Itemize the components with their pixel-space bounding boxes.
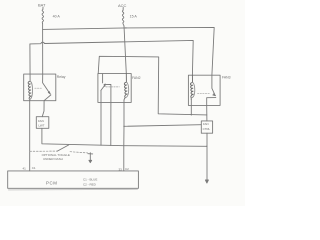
svg-text:41: 41 xyxy=(23,167,27,171)
svg-text:40 A: 40 A xyxy=(53,15,61,19)
relay K3 coil xyxy=(190,75,193,99)
svg-text:CTRL: CTRL xyxy=(203,127,211,131)
PCM box xyxy=(8,171,139,188)
wire fuse F1 down to relay K1 switch xyxy=(42,24,44,75)
svg-text:ACC: ACC xyxy=(118,3,127,8)
svg-text:C1: C1 xyxy=(32,166,36,170)
relay K2 label FAN2 xyxy=(132,76,141,80)
relay K3 switch xyxy=(212,75,215,94)
relay K3 box xyxy=(188,75,220,105)
fuse F2 label ACC xyxy=(118,3,127,8)
junction C-K3coil xyxy=(191,114,192,115)
relay K1 coil xyxy=(28,81,31,101)
fuse F2 (15A) xyxy=(122,7,124,26)
wire K3 coil to wire C xyxy=(190,100,192,115)
relay K2 armature dashed link xyxy=(106,86,119,88)
wire K2 pole down to wire D xyxy=(100,102,102,145)
toggle lever xyxy=(57,145,68,151)
ground GND1 xyxy=(88,153,93,155)
svg-text:C2 - RED: C2 - RED xyxy=(83,182,97,186)
box B2 FAN CTRL xyxy=(201,121,212,133)
wire K1 coil to PCM pin 41 xyxy=(29,101,31,171)
wire E : K2 coil to box B2 xyxy=(124,125,201,127)
dashed to ground xyxy=(70,152,88,153)
svg-text:FAN3: FAN3 xyxy=(222,75,231,79)
svg-text:15 A: 15 A xyxy=(130,14,138,18)
wire B1 down and right (wire D) xyxy=(42,128,207,146)
relay K1 armature dashed link xyxy=(35,87,42,89)
svg-text:FAN: FAN xyxy=(203,122,209,126)
svg-text:C1 - BLUE: C1 - BLUE xyxy=(83,178,97,182)
dashed optional toggle line xyxy=(30,150,58,152)
fuse F1 label BAT xyxy=(38,3,46,8)
note text optional toggle under dash xyxy=(42,153,70,161)
junction D-B2 xyxy=(206,146,207,147)
relay K2 switch xyxy=(102,74,104,83)
arrow to fan ground xyxy=(205,180,208,183)
svg-text:UNDER DASH: UNDER DASH xyxy=(43,157,63,161)
svg-text:FAN: FAN xyxy=(38,119,44,123)
fuse F1 (40A) xyxy=(42,7,43,23)
PCM pin 41 C1 labels xyxy=(23,166,36,170)
relay K2 box xyxy=(98,74,131,103)
wire A : fuse F1 to relay K3 switch xyxy=(43,27,215,75)
fuse F2 value 15A xyxy=(130,14,138,18)
relay K2 contact xyxy=(105,85,111,103)
relay K3 armature dashed link xyxy=(198,92,211,94)
svg-text:PCM: PCM xyxy=(46,180,58,185)
relay K1 label xyxy=(57,75,66,79)
wire K2 coil down to PCM pin 33 xyxy=(123,100,125,171)
junction E xyxy=(123,126,124,127)
wire K2 contact down to wire D xyxy=(110,102,112,145)
svg-text:BAT: BAT xyxy=(38,3,46,8)
PCM pin 33 C2 labels xyxy=(119,167,130,171)
PCM connector notes xyxy=(83,178,97,187)
svg-text:Relay: Relay xyxy=(57,75,66,79)
relay K1 switch xyxy=(43,74,50,93)
svg-text:C2: C2 xyxy=(125,167,129,171)
svg-text:33: 33 xyxy=(119,167,123,171)
relay K2 coil xyxy=(124,74,127,100)
fuse F1 value 40A xyxy=(53,15,61,19)
box B1 FAN LWT xyxy=(36,117,49,129)
wire B left drop to K1 coil xyxy=(29,44,31,81)
PCM text xyxy=(46,180,58,185)
junction A-F2 xyxy=(125,27,126,28)
relay K3 label FAN3 xyxy=(222,75,231,79)
wire B : relay K1 coil to relay K3 coil (hop over F1 wire) xyxy=(30,40,193,75)
wire K3 switch down to box B2 xyxy=(206,105,208,121)
relay K1 box xyxy=(24,74,56,101)
svg-text:LWT: LWT xyxy=(38,123,44,127)
wire K1 switch to box B1 xyxy=(42,101,44,117)
svg-text:FAN2: FAN2 xyxy=(132,76,141,80)
wire C : K2 switch feed loop to K3 switch output xyxy=(98,56,207,115)
PCM box bottom shadow line xyxy=(8,189,137,191)
wire B2 down to arrow xyxy=(206,133,208,180)
wire fuse F2 down to relay K2 coil xyxy=(124,26,126,74)
